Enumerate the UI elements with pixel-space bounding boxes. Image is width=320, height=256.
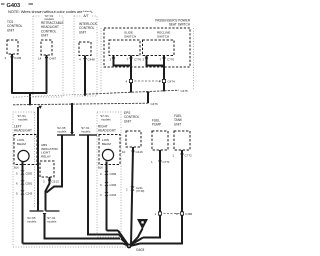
wire from TCS pin 4 — [11, 54, 13, 93]
svg-text:models: models — [101, 118, 111, 122]
inline connector C582 — [16, 171, 33, 176]
left headlight enclosure '97-'01 — [13, 112, 128, 247]
svg-text:C513: C513 — [52, 180, 60, 184]
wire from fuel tank unit to ground — [140, 150, 182, 244]
svg-text:C243: C243 — [26, 192, 33, 196]
pin 14 C467 label — [38, 57, 57, 61]
svg-text:14: 14 — [38, 57, 42, 61]
svg-text:G403: G403 — [136, 248, 144, 252]
wire from interlock unit to connector line — [84, 56, 86, 96]
wire junction bar down to line B — [29, 93, 31, 104]
dotted boundary right of seat switch — [193, 28, 195, 90]
node dot line B feeding model split — [71, 103, 73, 105]
wire from EPS unit to ground — [131, 147, 133, 246]
inline connector C284 — [100, 182, 117, 187]
interlock control unit U3 — [79, 22, 98, 56]
TCS control unit U1 — [7, 20, 23, 54]
svg-text:10: 10 — [122, 150, 126, 154]
passenger's power seat switch assembly — [104, 19, 191, 68]
merged wire to ground run — [45, 214, 121, 239]
svg-text:models: models — [81, 129, 91, 133]
wire from fuel pump to ground — [143, 150, 160, 238]
merge arrow — [43, 213, 47, 216]
svg-text:models: models — [47, 219, 57, 223]
ABS indicator light relay K1 — [40, 143, 58, 177]
EPS control unit U4 — [124, 111, 141, 147]
pin 10 C416 label — [122, 150, 143, 154]
terminal dot interlock on line A — [84, 94, 86, 96]
model split bars (top) — [57, 134, 97, 136]
svg-text:C476: C476 — [151, 102, 159, 106]
svg-text:UNIT: UNIT — [124, 119, 131, 123]
svg-text:C772: C772 — [185, 154, 193, 158]
svg-text:C448: C448 — [88, 58, 96, 62]
right headlight enclosure '97-'01 — [97, 112, 121, 237]
recline switch S2 — [143, 31, 175, 56]
inline connector C243 — [16, 191, 33, 196]
svg-text:C771: C771 — [163, 160, 171, 164]
svg-text:('97-'98): ('97-'98) — [136, 191, 145, 193]
wire right branch from split to ground run — [88, 135, 119, 235]
ground fan diagonals — [118, 231, 143, 247]
svg-text:C582: C582 — [26, 172, 33, 176]
enclosure A/T (interlock unit) — [74, 16, 97, 96]
svg-text:C776: C776 — [134, 58, 142, 62]
svg-text:C241: C241 — [136, 186, 143, 190]
svg-text:BLK: BLK — [14, 166, 19, 170]
title G403 — [1, 3, 33, 9]
connector C486 link between fuel wires — [155, 212, 193, 216]
long wire W1 down to bottom merge — [37, 107, 39, 211]
terminal dot slide wire on line A — [130, 90, 132, 92]
wire from relay to bottom merge right bar — [46, 177, 50, 211]
inline connector C264 — [100, 192, 117, 197]
male terminal arrow below split wire — [70, 132, 74, 135]
terminal dot on line B — [29, 103, 31, 105]
inline connector C581 — [16, 181, 33, 186]
bottom merge bars — [30, 210, 60, 212]
svg-text:BEAM: BEAM — [102, 142, 111, 146]
recline switch pin wires joining — [147, 56, 165, 66]
male terminal arrow on line B x40 — [38, 106, 42, 109]
dotted boundary left of seat switch — [100, 28, 102, 92]
right headlight L2 — [98, 125, 120, 165]
left headlight L1 — [14, 125, 37, 165]
slide switch pin wires joining — [114, 56, 132, 66]
ground terminal triangle — [130, 219, 148, 246]
node junction on bar — [29, 92, 31, 94]
recline switch output wire — [163, 66, 165, 91]
svg-text:C474: C474 — [168, 80, 176, 84]
retractable headlight control unit U2 — [41, 21, 64, 55]
svg-text:UNIT: UNIT — [41, 34, 48, 38]
svg-text:C282: C282 — [110, 172, 117, 176]
svg-text:C416: C416 — [136, 150, 144, 154]
svg-text:RELAY: RELAY — [41, 154, 51, 158]
svg-text:HEADLIGHT: HEADLIGHT — [98, 129, 116, 133]
wire down to model split bars — [71, 104, 73, 132]
svg-text:SEAT SWITCH: SEAT SWITCH — [169, 23, 191, 27]
fuel pump M1 — [152, 119, 168, 151]
svg-text:PUMP: PUMP — [152, 123, 161, 127]
slide switch S1 — [109, 31, 140, 56]
connector C474 link between seat wires — [126, 79, 176, 83]
svg-text:models: models — [57, 129, 67, 133]
left headlight wire elbow to ground — [23, 243, 124, 245]
enclosure '97-'01 models (retractable headlight unit) — [33, 16, 63, 97]
fuel tank unit M2 — [174, 114, 190, 150]
svg-text:UNIT: UNIT — [174, 122, 181, 126]
junction bar TCS + retractable headlight wires — [11, 92, 47, 94]
wire drop from line A to line B — [146, 92, 150, 104]
svg-text:C770: C770 — [167, 58, 175, 62]
svg-text:SWITCH: SWITCH — [157, 34, 169, 38]
slide switch pin labels 3 / 7 C776 — [110, 58, 142, 62]
svg-text:SWITCH: SWITCH — [124, 34, 136, 38]
slide switch output wire — [130, 66, 132, 92]
svg-text:C264: C264 — [110, 193, 117, 197]
wire from left headlight low beam — [22, 162, 24, 244]
inline connector C241 — [126, 186, 145, 193]
connector line B C476 — [13, 102, 158, 106]
svg-text:C581: C581 — [26, 182, 33, 186]
inline connector C282 — [100, 171, 117, 176]
svg-text:A/T: A/T — [83, 14, 88, 18]
pin 1 C771 label — [151, 160, 170, 164]
svg-text:C486: C486 — [185, 212, 193, 216]
pin 4 C445 label — [5, 56, 22, 60]
pin 1 C772 label — [173, 154, 193, 158]
pin 3 C513 label — [43, 180, 59, 184]
svg-text:BEAM: BEAM — [17, 142, 26, 146]
wire left branch from split to relay merge — [47, 135, 63, 193]
wire from right headlight low beam — [106, 162, 108, 231]
svg-text:UNIT: UNIT — [7, 28, 14, 32]
connector line A C475 — [13, 89, 188, 97]
terminal dot recline wire on line A — [163, 89, 165, 91]
right headlight wire elbow to ground — [107, 230, 119, 232]
svg-text:models: models — [18, 118, 28, 122]
svg-text:models: models — [27, 219, 37, 223]
svg-text:UNIT: UNIT — [79, 30, 86, 34]
pin 4 C448 label — [79, 58, 95, 62]
svg-text:C445: C445 — [14, 56, 22, 60]
svg-text:HEADLIGHT: HEADLIGHT — [14, 129, 32, 133]
svg-text:BLK: BLK — [98, 166, 103, 170]
svg-text:C467: C467 — [49, 57, 57, 61]
ground node G403 — [127, 244, 145, 252]
recline switch pin labels 3 / 7 C770 — [143, 58, 175, 62]
svg-text:C475: C475 — [181, 89, 189, 93]
wire from retractable headlight unit — [46, 55, 48, 93]
svg-text:C284: C284 — [110, 183, 117, 187]
